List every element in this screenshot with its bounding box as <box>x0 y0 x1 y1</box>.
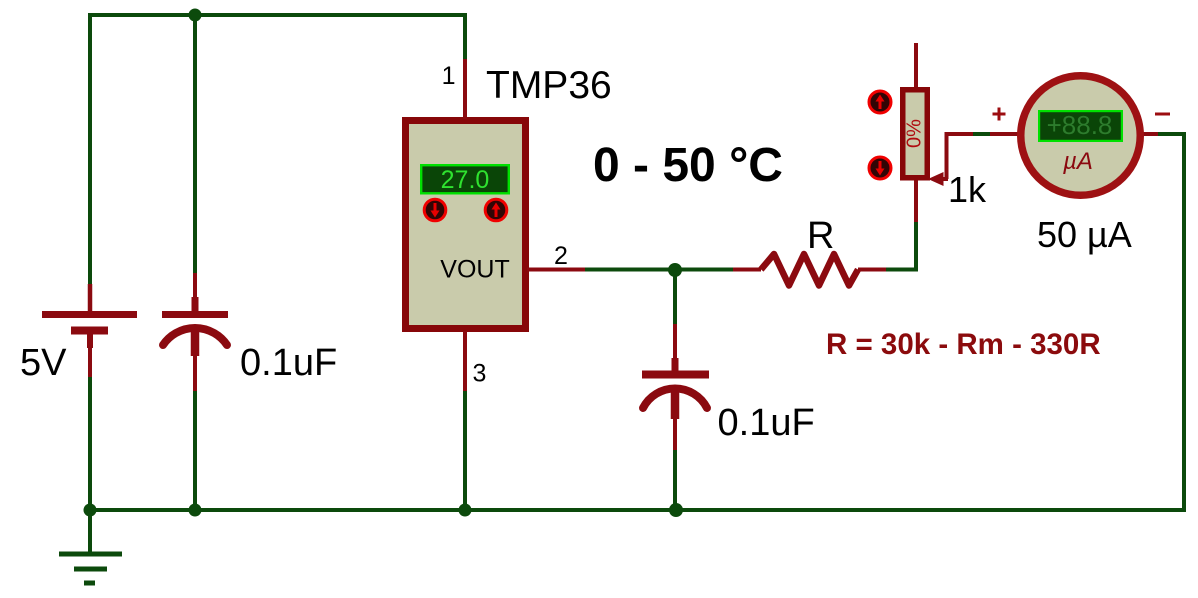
label 50 uA <box>1037 214 1132 255</box>
resistor R <box>733 254 886 286</box>
svg-text:3: 3 <box>473 360 487 388</box>
wire junction drop to C2 <box>673 269 677 325</box>
svg-text:0%: 0% <box>904 119 926 148</box>
svg-text:0.1uF: 0.1uF <box>240 342 337 384</box>
node junction top (battery/C1) <box>189 9 202 22</box>
wire cap C1 bottom to rail <box>193 390 197 512</box>
pin 3 <box>463 331 467 391</box>
wire resistor right to pot corner <box>886 268 918 272</box>
wire wiper to meter gap <box>973 132 990 136</box>
svg-text:50 µA: 50 µA <box>1037 214 1132 255</box>
wire top rail <box>88 13 467 17</box>
wire C2 bottom to rail <box>673 449 677 512</box>
pot button up <box>869 91 891 113</box>
wire right vertical <box>1182 132 1186 512</box>
battery B1 5V <box>42 284 137 377</box>
label 0.1uF (C2) <box>718 402 815 444</box>
wire pin2 to junction and resistor <box>585 268 734 272</box>
node junction C2-rail <box>669 503 683 517</box>
svg-text:1: 1 <box>442 62 456 90</box>
label 0 - 50 C title <box>593 139 783 192</box>
meter left pin <box>990 132 1020 136</box>
label TMP36 <box>486 64 612 107</box>
potentiometer RV1 body <box>900 43 930 222</box>
node junction C1-rail <box>189 504 202 517</box>
TMP36 button up <box>485 199 507 221</box>
capacitor C1 0.1uF <box>162 273 228 391</box>
wire left vertical to battery <box>88 13 92 285</box>
pin number 3 <box>473 360 487 388</box>
label plus <box>993 108 1006 121</box>
ground <box>59 554 122 583</box>
pot button down <box>869 157 891 179</box>
wire pin1 green <box>463 13 467 60</box>
wire cap C1 top <box>193 13 197 274</box>
pin 2 <box>527 268 585 272</box>
wire bottom rail <box>88 508 1186 512</box>
wire pot bottom vertical <box>914 222 918 271</box>
svg-text:27.0: 27.0 <box>441 166 490 194</box>
pin number 2 <box>554 242 568 270</box>
node junction VOUT/C2 <box>668 263 682 277</box>
node junction pin3-rail <box>459 504 472 517</box>
wire ground stub <box>88 510 92 554</box>
svg-text:2: 2 <box>554 242 568 270</box>
svg-text:5V: 5V <box>20 342 67 384</box>
svg-text:0 - 50 °C: 0 - 50 °C <box>593 139 783 192</box>
wire meter right green <box>1158 132 1186 136</box>
svg-text:TMP36: TMP36 <box>486 64 612 107</box>
svg-text:R = 30k - Rm - 330R: R = 30k - Rm - 330R <box>826 328 1101 361</box>
capacitor C2 0.1uF <box>642 324 709 450</box>
label R <box>807 215 834 257</box>
label R = 30k - Rm - 330R <box>826 328 1101 361</box>
wire pin3 to rail <box>463 391 467 512</box>
TMP36 button down <box>424 199 446 221</box>
svg-text:µA: µA <box>1062 148 1093 175</box>
node junction ground-battery <box>84 504 97 517</box>
svg-text:VOUT: VOUT <box>440 256 509 284</box>
label 5V <box>20 342 67 384</box>
label VOUT <box>440 256 509 284</box>
label 0.1uF (C1) <box>240 342 337 384</box>
TMP36 U1 body <box>402 117 529 332</box>
wire battery bottom to rail <box>88 376 92 512</box>
TMP36 display <box>420 164 510 195</box>
pin 1 <box>463 59 467 119</box>
pin number 1 <box>442 62 456 90</box>
svg-text:0.1uF: 0.1uF <box>718 402 815 444</box>
ammeter U2 body <box>1021 76 1141 196</box>
label minus <box>1155 113 1170 116</box>
meter right pin <box>1142 132 1158 136</box>
pot wiper arrow <box>928 132 973 186</box>
svg-text:1k: 1k <box>948 169 987 210</box>
label 1k <box>948 169 987 210</box>
svg-text:R: R <box>807 215 834 257</box>
svg-text:+88.8: +88.8 <box>1047 110 1113 140</box>
